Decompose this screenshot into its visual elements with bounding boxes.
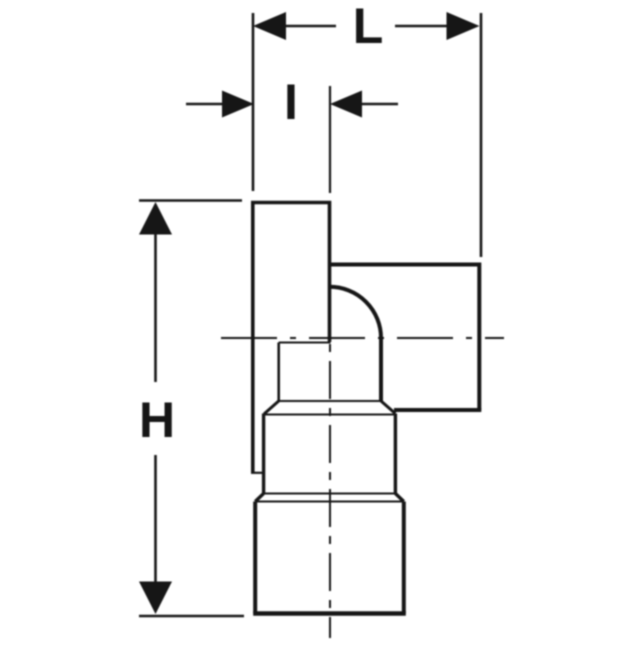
dimension I arrow right (points left) [330,91,362,118]
step3 left edge [253,502,257,614]
dimension I arrow left (points right) [222,91,254,118]
step2 bottom junction line [264,493,396,495]
bell flare right [395,494,403,502]
step3 top junction line [255,501,404,503]
dimension L arrow left [253,12,286,40]
step2 top junction line [265,414,394,416]
dimension H top extension line [139,199,242,201]
dimension L line right segment [395,25,448,28]
horizontal pipe outline [330,265,480,411]
vertical centerline [329,344,331,638]
socket bottom edge jog [251,472,265,474]
horizontal centerline [221,337,504,339]
svg-text:I: I [284,74,298,130]
step2 left edge [262,414,265,494]
dimension H arrow up [139,202,172,235]
extension line right of dimension I [329,86,331,193]
dimension H line lower segment [154,455,157,583]
step2 right edge [394,414,397,494]
dimension L arrow right [447,12,480,40]
step3 right edge [402,502,406,614]
extension line left of dimension L [252,13,255,191]
svg-text:H: H [139,392,175,448]
flare diagonal left [264,401,279,414]
dimension H line upper segment [154,233,157,382]
flare diagonal right [381,401,395,414]
svg-text:L: L [353,0,384,54]
step1 bottom junction line [279,400,381,402]
dimension I lead line left [186,103,224,106]
extension line right of dimension L [480,13,483,257]
bell flare left [255,494,263,502]
step1 top junction line [279,342,331,344]
vertical socket outline (top left rectangle) [253,203,330,474]
dimension I lead line right [360,103,398,106]
dimension H bottom extension line [139,615,244,617]
step1 left edge [277,343,280,402]
dimension H arrow down [139,582,172,615]
dimension L line left segment [284,25,336,28]
step3 bottom edge [253,611,406,616]
elbow outer arc and step1 right edge [330,287,382,401]
horizontal pipe bottom edge [394,408,481,412]
